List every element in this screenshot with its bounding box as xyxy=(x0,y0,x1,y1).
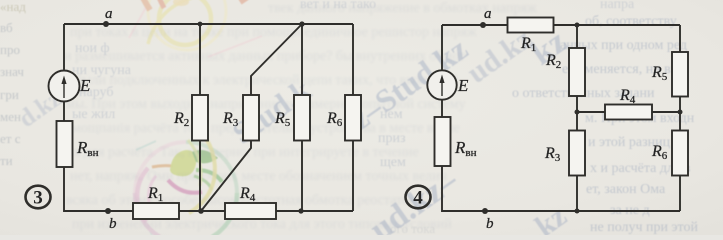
svg-text:«над: «над xyxy=(0,0,26,14)
green tail curls xyxy=(196,170,222,182)
resistor R4 circuit4 xyxy=(605,87,652,120)
resistor R6 circuit4 xyxy=(651,131,688,176)
big ring xyxy=(135,142,186,193)
svg-text:щем: щем xyxy=(380,155,406,170)
svg-text:b: b xyxy=(486,216,494,232)
svg-text:вб: вб xyxy=(0,20,13,35)
svg-text:и этой разниц б: и этой разниц б xyxy=(588,135,681,150)
wire branch R2 circuit3 xyxy=(199,24,201,95)
wire branch R5 circuit3 xyxy=(301,24,303,95)
junction dot top middle circuit4 xyxy=(575,23,580,28)
resistor R1 circuit4 xyxy=(508,18,554,55)
svg-text:вет и на тако: вет и на тако xyxy=(300,0,376,12)
svg-text:нои ф: нои ф xyxy=(75,41,110,56)
junction dot bottom R5 circuit3 xyxy=(298,208,303,213)
watermark text Stud.kz diagonals xyxy=(14,22,573,240)
junction dot bottom node circuit3 xyxy=(198,208,204,214)
wire middle branch circuit4 xyxy=(576,25,578,48)
svg-text:об, соответству: об, соответству xyxy=(585,14,677,29)
svg-text:нет, напряж. Оми при обоих мес: нет, напряж. Оми при обоих месте обознач… xyxy=(70,169,447,184)
wire left circuit3 lower xyxy=(63,101,65,122)
node a circuit4 xyxy=(480,6,492,28)
pink crescents left xyxy=(137,168,148,222)
svg-text:ые жил: ые жил xyxy=(72,107,115,122)
svg-text:ых для расчёта. Так, примерно,: ых для расчёта. Так, примерно, при интег… xyxy=(64,145,419,160)
wire branch R6 circuit3 xyxy=(352,24,354,95)
watermark logo bottom-left xyxy=(134,127,237,237)
long yellow feather swirls right xyxy=(189,127,215,213)
node a circuit3 xyxy=(103,6,113,27)
dark wing xyxy=(192,150,218,163)
wire top circuit4 left xyxy=(442,24,508,26)
bird beak xyxy=(152,166,173,167)
svg-text:3: 3 xyxy=(33,188,43,209)
wire bottom circuit3 right xyxy=(276,210,353,212)
wire diagonal top R3 circuit3 xyxy=(251,24,302,95)
node b circuit3 xyxy=(105,208,117,232)
wire R4 connections circuit4 xyxy=(577,111,605,113)
resistor R5 circuit4 xyxy=(651,52,688,97)
node b circuit4 xyxy=(482,208,494,232)
resistor R3 circuit3 xyxy=(222,95,259,141)
svg-text:a: a xyxy=(484,6,492,22)
wire left circuit4 lower xyxy=(441,100,443,118)
svg-text:напра: напра xyxy=(600,0,635,12)
figure number 4 xyxy=(406,186,431,209)
svg-text:ого тока: ого тока xyxy=(390,221,435,235)
junction dot top R2 circuit3 xyxy=(198,22,203,27)
svg-text:E: E xyxy=(457,76,469,95)
svg-text:про: про xyxy=(0,42,20,57)
svg-text:ет, закон Ома: ет, закон Ома xyxy=(586,182,666,197)
wire left circuit3 upper xyxy=(63,24,65,70)
bird head and body xyxy=(170,150,196,176)
junction dot R2R4 circuit4 xyxy=(575,110,580,115)
wire left circuit4 bottom xyxy=(442,166,680,211)
junction dot R5R4 circuit4 xyxy=(678,110,683,115)
svg-text:мы. При этом выходная напряжен: мы. При этом выходная напряжения на заме… xyxy=(66,97,465,112)
resistor R2 circuit3 xyxy=(173,95,208,141)
svg-text:не получ при этой: не получ при этой xyxy=(590,220,698,235)
wire bottom circuit3 mid xyxy=(179,210,225,212)
svg-text:ти: ти xyxy=(0,153,13,168)
resistor R5 circuit3 xyxy=(274,95,310,141)
svg-text:a: a xyxy=(105,6,113,22)
svg-text:приз: приз xyxy=(378,131,406,146)
resistor R6 circuit3 xyxy=(326,95,361,141)
resistor Rвн circuit4 xyxy=(435,117,477,166)
wire left circuit3 bottom xyxy=(64,167,133,211)
svg-text:ет с: ет с xyxy=(0,131,21,146)
svg-text:4: 4 xyxy=(413,188,423,209)
svg-text:при токах в цепи на точке при: при токах в цепи на точке при помощи еди… xyxy=(70,25,477,40)
wire diagonal bottom R3 circuit3 xyxy=(201,141,251,212)
watermark logo top xyxy=(129,0,262,57)
svg-text:b: b xyxy=(109,216,117,232)
resistor R4 circuit3 xyxy=(225,185,276,219)
magenta swoosh under bird xyxy=(168,180,202,193)
faint page bleed texture xyxy=(64,1,537,232)
svg-text:гри: гри xyxy=(0,87,19,102)
emf source E circuit4 xyxy=(427,70,469,99)
resistor R2 circuit4 xyxy=(545,48,585,96)
resistor Rвн circuit3 xyxy=(57,121,99,167)
wire top circuit4 right xyxy=(554,24,681,26)
resistor R3 circuit4 xyxy=(544,131,585,176)
svg-text:знач: знач xyxy=(0,64,24,79)
svg-text:E: E xyxy=(79,76,91,95)
emf source E circuit3 xyxy=(49,71,92,102)
wire right branch circuit4 xyxy=(679,25,681,52)
junction dot bottom middle circuit4 xyxy=(575,209,580,214)
junction dot top R5 circuit3 xyxy=(299,21,304,26)
svg-text:мен: мен xyxy=(0,109,21,124)
wire top circuit3 xyxy=(64,23,353,25)
wire left circuit4 upper xyxy=(441,25,443,71)
resistor R1 circuit3 xyxy=(133,185,179,219)
svg-text:были подключенных к электричес: были подключенных к электрической цепи т… xyxy=(75,73,458,88)
svg-text:нем: нем xyxy=(380,107,403,122)
figure number 3 xyxy=(26,186,51,209)
